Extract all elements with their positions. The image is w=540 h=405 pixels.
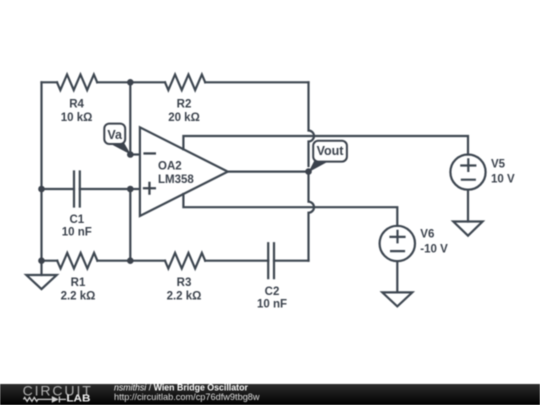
svg-text:LAB: LAB bbox=[66, 394, 90, 405]
svg-text:10 V: 10 V bbox=[491, 173, 515, 185]
svg-text:10 nF: 10 nF bbox=[62, 226, 92, 238]
wire V5 to ground bbox=[467, 190, 469, 222]
wire R3 to C2 bbox=[205, 260, 268, 262]
wire to inverting input bbox=[130, 153, 140, 155]
node label Va bubble bbox=[104, 124, 131, 155]
svg-text:10 nF: 10 nF bbox=[257, 299, 287, 311]
ground for V5 bbox=[453, 222, 482, 236]
wire to noninverting input bbox=[130, 188, 140, 190]
junction Vout node bbox=[305, 168, 312, 175]
voltage source V5 bbox=[450, 155, 485, 190]
junction node top Va bbox=[127, 79, 134, 86]
wire V6 to ground bbox=[396, 261, 398, 292]
junction noninverting input node bbox=[127, 186, 134, 193]
svg-text:R4: R4 bbox=[69, 99, 84, 111]
op-amp V- power stub and wire to V6 bbox=[183, 194, 397, 226]
junction R1 left rail ground bbox=[38, 257, 45, 264]
svg-text:C1: C1 bbox=[69, 214, 84, 226]
wire v+ rail vertical bbox=[129, 189, 131, 261]
wire C2 to Vout rail bbox=[274, 260, 309, 262]
svg-text:R1: R1 bbox=[71, 277, 86, 289]
svg-text:C2: C2 bbox=[265, 286, 280, 298]
wire R2 to Vout rail bbox=[205, 81, 308, 83]
svg-text:Vout: Vout bbox=[317, 144, 345, 158]
svg-text:OA2: OA2 bbox=[158, 161, 182, 173]
wire left rail to ground bbox=[40, 261, 42, 275]
wire Vout rail upper with hops bbox=[309, 82, 315, 166]
svg-text:2.2 kΩ: 2.2 kΩ bbox=[61, 291, 96, 303]
logo zigzag and diode bbox=[24, 396, 67, 402]
wire Va rail vertical bbox=[129, 82, 131, 154]
resistor R3 bbox=[165, 253, 205, 269]
svg-text:-10 V: -10 V bbox=[420, 244, 448, 256]
junction inverting input node bbox=[127, 151, 134, 158]
resistor R1 bbox=[57, 253, 97, 269]
op-amp plus symbol bbox=[143, 182, 156, 195]
wire R1 lead left bbox=[42, 260, 58, 262]
wire left rail bbox=[40, 82, 42, 260]
wire Vout rail lower with hop bbox=[309, 172, 315, 261]
svg-text:http://circuitlab.com/cp76dfw9: http://circuitlab.com/cp76dfw9tbg8w bbox=[114, 392, 260, 402]
op-amp V+ power stub and wire to V5 bbox=[183, 136, 468, 155]
wire R1 to v+ node bbox=[97, 260, 130, 262]
resistor R4 bbox=[57, 75, 97, 91]
voltage source V6 bbox=[380, 226, 415, 261]
svg-text:2.2 kΩ: 2.2 kΩ bbox=[167, 291, 202, 303]
wire v+ node to R3 bbox=[130, 260, 165, 262]
svg-text:V5: V5 bbox=[491, 158, 506, 170]
svg-text:R3: R3 bbox=[177, 277, 192, 289]
op-amp minus symbol bbox=[143, 152, 156, 154]
svg-text:Va: Va bbox=[107, 128, 123, 142]
capacitor C1 bbox=[74, 172, 80, 207]
wire C1 row left bbox=[42, 188, 75, 190]
junction C1 left rail bbox=[38, 186, 45, 193]
svg-text:10 kΩ: 10 kΩ bbox=[61, 112, 93, 124]
ground bottom left bbox=[26, 275, 56, 289]
svg-text:V6: V6 bbox=[420, 228, 434, 240]
junction v+ bottom node bbox=[127, 257, 134, 264]
capacitor C2 bbox=[268, 243, 274, 278]
ground for V6 bbox=[382, 292, 412, 306]
wire R4 to node Va bbox=[97, 81, 130, 83]
wire node Va to R2 bbox=[130, 81, 165, 83]
op-amp OA2 triangle bbox=[140, 127, 228, 216]
svg-text:R2: R2 bbox=[177, 99, 192, 111]
resistor R2 bbox=[165, 75, 205, 91]
svg-text:LM358: LM358 bbox=[158, 174, 194, 186]
node label Vout bubble bbox=[308, 141, 347, 173]
op-amp output wire bbox=[228, 171, 309, 173]
wire C1 to noninverting node bbox=[80, 188, 131, 190]
wire top row R4 lead left bbox=[42, 81, 58, 83]
footer bar bbox=[0, 384, 540, 405]
svg-text:20 kΩ: 20 kΩ bbox=[168, 112, 200, 124]
